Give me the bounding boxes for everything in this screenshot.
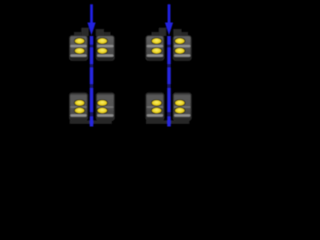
vestibule steps top	[159, 28, 166, 36]
membrane box top-right	[96, 36, 114, 61]
ion flow arrow head	[87, 23, 95, 36]
lipid stripe highlights	[147, 45, 163, 47]
ion flow arrow shaft	[90, 4, 93, 24]
membrane box top-right	[173, 36, 191, 61]
vestibule band bottom	[70, 120, 112, 124]
membrane box bottom-right	[96, 93, 114, 120]
membrane box bottom-right	[173, 93, 191, 120]
lipid stripe highlights	[70, 45, 86, 47]
vestibule steps top	[81, 28, 88, 36]
membrane box bottom-left	[70, 93, 88, 120]
lipid head phospholipids yellow	[74, 38, 84, 44]
left channel membrane channel	[70, 4, 115, 126]
ion flow arrow head	[165, 23, 173, 36]
membrane box bottom-left	[146, 93, 164, 120]
ion flow arrow shaft	[168, 4, 171, 24]
lipid head phospholipids yellow	[151, 38, 161, 44]
dashed ion flow line	[90, 36, 93, 127]
membrane box top-left	[70, 36, 88, 61]
right channel membrane channel	[146, 4, 191, 126]
vestibule band bottom	[146, 120, 189, 124]
bright flow dashes	[90, 36, 93, 127]
bright flow dashes	[167, 36, 170, 127]
dashed ion flow line	[167, 36, 170, 127]
membrane box top-left	[146, 36, 164, 61]
